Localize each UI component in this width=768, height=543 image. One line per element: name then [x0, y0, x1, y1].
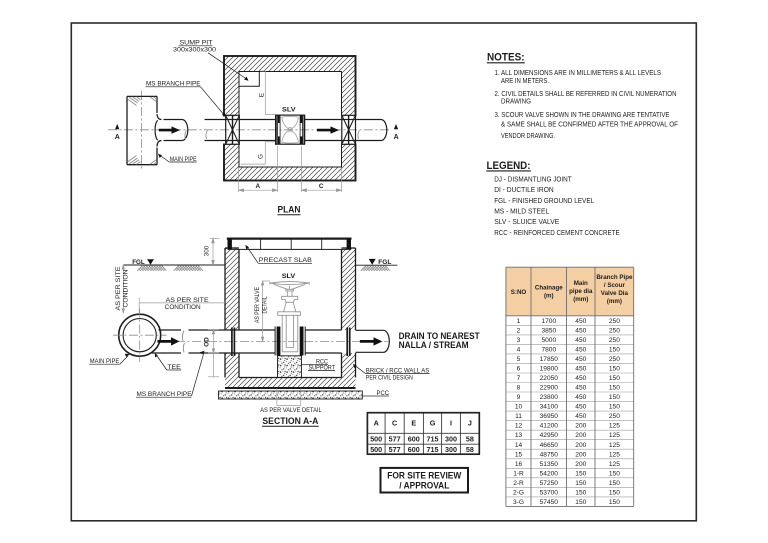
- svg-text:300: 300: [445, 445, 457, 454]
- section marker A left: [115, 124, 120, 141]
- svg-text:58: 58: [466, 435, 474, 444]
- main pipe (plan, vertical): [127, 96, 157, 164]
- svg-text:125: 125: [609, 423, 620, 430]
- chamber outer wall (plan): [224, 56, 356, 181]
- svg-text:200: 200: [575, 423, 586, 430]
- svg-text:150: 150: [575, 499, 586, 506]
- valve hourglass internals: [282, 117, 299, 143]
- svg-text:150: 150: [609, 375, 620, 382]
- floor outline (section): [225, 378, 356, 389]
- svg-text:SLV - SLUICE VALVE: SLV - SLUICE VALVE: [494, 219, 559, 226]
- right wall hatch (section): [342, 248, 356, 330]
- svg-text:13: 13: [515, 432, 523, 439]
- svg-text:FGL - FINISHED GROUND LEVEL: FGL - FINISHED GROUND LEVEL: [494, 198, 594, 205]
- valve body channel: [282, 315, 298, 352]
- PCC strip: [219, 391, 363, 399]
- wall crossing flange ticks left (section): [231, 328, 233, 357]
- svg-text:I: I: [450, 419, 452, 428]
- svg-text:34100: 34100: [540, 404, 559, 411]
- label PCC with leader: [363, 390, 390, 397]
- label TEE with leader: [155, 353, 182, 371]
- svg-text:S:NO: S:NO: [511, 289, 527, 296]
- svg-text:3: 3: [517, 337, 521, 344]
- svg-text:10: 10: [515, 404, 523, 411]
- dimension AS PER VALVE DETAIL (valve height): [261, 281, 270, 341]
- svg-text:7: 7: [517, 375, 521, 382]
- svg-text:150: 150: [609, 480, 620, 487]
- svg-text:577: 577: [389, 445, 401, 454]
- svg-text:600: 600: [408, 435, 420, 444]
- svg-text:125: 125: [609, 461, 620, 468]
- svg-text:15: 15: [515, 451, 523, 458]
- svg-text:(mm): (mm): [573, 296, 588, 303]
- svg-text:36950: 36950: [540, 413, 559, 420]
- svg-text:SLV: SLV: [282, 106, 296, 113]
- svg-text:SLV: SLV: [282, 273, 296, 280]
- svg-text:A: A: [374, 419, 379, 428]
- flow arrow (section left): [158, 337, 180, 345]
- pipe right stub to drain (section): [356, 330, 390, 352]
- valve neck taper: [284, 302, 296, 312]
- svg-text:715: 715: [427, 445, 439, 454]
- svg-text:450: 450: [575, 347, 586, 354]
- main pipe end break hatches: [128, 97, 157, 165]
- svg-text:CONDITION: CONDITION: [122, 269, 129, 307]
- svg-text:300: 300: [204, 245, 211, 256]
- svg-text:(m): (m): [544, 292, 554, 299]
- svg-text:250: 250: [609, 337, 620, 344]
- svg-text:Chainage: Chainage: [535, 284, 563, 291]
- pipe break marks (section): [182, 331, 184, 353]
- svg-text:1: 1: [517, 318, 521, 325]
- svg-text:450: 450: [575, 366, 586, 373]
- svg-text:450: 450: [575, 318, 586, 325]
- dimension G (valve to inner wall): [241, 142, 276, 164]
- svg-text:2-G: 2-G: [513, 489, 524, 496]
- left wall hatch (section): [225, 248, 239, 330]
- dimension 300 (chamber above ground): [210, 238, 220, 265]
- svg-text:AS PER SITE: AS PER SITE: [115, 267, 122, 311]
- svg-text:450: 450: [575, 356, 586, 363]
- label BRICK / RCC WALL AS PER CIVIL DESIGN with leader: [353, 364, 430, 382]
- svg-text:19800: 19800: [540, 366, 559, 373]
- svg-text:150: 150: [609, 470, 620, 477]
- svg-text:300x300x300: 300x300x300: [173, 47, 216, 54]
- data table header text: [511, 274, 633, 305]
- FOR SITE REVIEW / APPROVAL stamp box: [381, 468, 469, 493]
- svg-text:41200: 41200: [540, 423, 559, 430]
- svg-text:150: 150: [609, 404, 620, 411]
- svg-text:42950: 42950: [540, 432, 559, 439]
- svg-text:150: 150: [609, 394, 620, 401]
- dimension A below chamber: [239, 146, 278, 192]
- svg-text:57450: 57450: [540, 499, 559, 506]
- svg-text:NOTES:: NOTES:: [487, 52, 525, 64]
- svg-text:125: 125: [609, 432, 620, 439]
- svg-text:46650: 46650: [540, 442, 559, 449]
- svg-text:CONDITION: CONDITION: [165, 304, 201, 311]
- pipe opening masks in walls (plan): [223, 117, 241, 144]
- svg-text:150: 150: [575, 489, 586, 496]
- valve bonnet flange: [278, 312, 301, 316]
- svg-text:600: 600: [408, 445, 420, 454]
- svg-text:PER CIVIL DESIGN: PER CIVIL DESIGN: [366, 375, 413, 382]
- data table header background: [506, 267, 634, 316]
- svg-text:3-G: 3-G: [513, 499, 524, 506]
- dismantling joint DJ left (plan): [226, 115, 240, 144]
- valve flanges on pipe (section): [275, 327, 305, 356]
- svg-text:C: C: [392, 419, 397, 428]
- RCC support block: [278, 356, 302, 378]
- svg-text:AS PER VALVE DETAIL: AS PER VALVE DETAIL: [260, 407, 322, 414]
- leader AS PER SITE CONDITION (horizontal): [139, 297, 225, 313]
- dimension E (sump pit to valve): [260, 71, 275, 115]
- svg-text:150: 150: [609, 366, 620, 373]
- valve yoke: [282, 296, 298, 302]
- svg-text:200: 200: [575, 461, 586, 468]
- sluice valve SLV (plan): [276, 106, 305, 144]
- svg-text:E: E: [411, 419, 416, 428]
- svg-text:300: 300: [445, 435, 457, 444]
- svg-text:150: 150: [609, 499, 620, 506]
- plan centerline horizontal: [108, 129, 391, 131]
- svg-text:SECTION A-A: SECTION A-A: [262, 416, 318, 427]
- chamber inner wall (plan): [239, 72, 342, 168]
- pipe break marks (plan): [185, 131, 208, 140]
- svg-text:Branch Pipe: Branch Pipe: [596, 274, 633, 281]
- svg-text:150: 150: [609, 385, 620, 392]
- label SUMP PIT with leader: [173, 40, 249, 81]
- flow arrow (plan left): [159, 126, 180, 133]
- dismantling joint DJ right (plan): [342, 115, 356, 144]
- dimension OD (pipe): [208, 330, 219, 377]
- svg-text:DETAIL: DETAIL: [262, 296, 269, 313]
- svg-text:1-R: 1-R: [513, 470, 524, 477]
- svg-text:/ Scour: / Scour: [604, 282, 626, 289]
- svg-text:LEGEND:: LEGEND:: [487, 160, 531, 172]
- svg-text:250: 250: [609, 356, 620, 363]
- svg-text:5000: 5000: [541, 337, 556, 344]
- section pipe centerline: [160, 340, 388, 342]
- branch pipe to wall (section): [189, 330, 276, 353]
- svg-text:16: 16: [515, 461, 523, 468]
- svg-text:450: 450: [575, 327, 586, 334]
- svg-text:AS PER VALVE: AS PER VALVE: [254, 287, 261, 323]
- svg-text:(mm): (mm): [607, 298, 622, 305]
- svg-text:A: A: [394, 134, 399, 141]
- svg-text:4: 4: [517, 347, 521, 354]
- label MS BRANCH PIPE (section) with leader: [136, 351, 205, 399]
- svg-text:NALLA / STREAM: NALLA / STREAM: [399, 340, 469, 350]
- svg-text:200: 200: [575, 442, 586, 449]
- svg-text:450: 450: [575, 385, 586, 392]
- FGL marker right (section): [356, 259, 398, 271]
- svg-text:53700: 53700: [540, 489, 559, 496]
- svg-text:G: G: [430, 419, 436, 428]
- svg-text:200: 200: [575, 432, 586, 439]
- flow arrow (section right): [360, 337, 383, 345]
- svg-text:9: 9: [517, 394, 521, 401]
- wall crossing flange ticks right (section): [346, 328, 348, 357]
- svg-text:VENDOR DRAWING.: VENDOR DRAWING.: [501, 133, 555, 140]
- svg-text:DRAWING: DRAWING: [501, 99, 531, 106]
- precast slab: [227, 239, 352, 250]
- svg-text:J: J: [468, 419, 472, 428]
- svg-text:250: 250: [609, 318, 620, 325]
- branch pipe stub (plan): [164, 120, 188, 141]
- svg-text:12: 12: [515, 423, 523, 430]
- svg-text:14: 14: [515, 442, 523, 449]
- svg-text:RCC - REINFORCED CEMENT CONCRE: RCC - REINFORCED CEMENT CONCRETE: [494, 230, 620, 237]
- svg-text:22050: 22050: [540, 375, 559, 382]
- svg-text:1. ALL DIMENSIONS ARE IN MILLI: 1. ALL DIMENSIONS ARE IN MILLIMETERS & A…: [495, 70, 662, 77]
- svg-text:23800: 23800: [540, 394, 559, 401]
- svg-text:450: 450: [575, 337, 586, 344]
- svg-text:22900: 22900: [540, 385, 559, 392]
- svg-text:48750: 48750: [540, 451, 559, 458]
- circle crosshairs: [113, 334, 167, 336]
- pipe right of chamber (plan): [356, 120, 387, 141]
- sump pit: [239, 72, 259, 86]
- svg-text:150: 150: [609, 489, 620, 496]
- svg-text:DJ - DISMANTLING JOINT: DJ - DISMANTLING JOINT: [494, 177, 572, 184]
- svg-text:17850: 17850: [540, 356, 559, 363]
- pipe break mark right (plan): [358, 131, 360, 140]
- svg-text:5: 5: [517, 356, 521, 363]
- svg-text:125: 125: [609, 451, 620, 458]
- svg-text:C: C: [319, 183, 324, 190]
- svg-text:54200: 54200: [540, 470, 559, 477]
- svg-text:E: E: [258, 93, 265, 97]
- svg-text:450: 450: [575, 413, 586, 420]
- dimension C below chamber: [302, 146, 342, 192]
- svg-text:57250: 57250: [540, 480, 559, 487]
- svg-text:3850: 3850: [541, 327, 556, 334]
- label PRECAST SLAB with leader: [245, 245, 312, 265]
- svg-text:A: A: [115, 134, 120, 141]
- label RCC SUPPORT: [302, 359, 335, 372]
- sluice valve (section): handwheel: [270, 282, 309, 352]
- svg-text:6: 6: [517, 366, 521, 373]
- svg-text:200: 200: [575, 451, 586, 458]
- svg-text:450: 450: [575, 404, 586, 411]
- svg-text:450: 450: [575, 375, 586, 382]
- data table row lines: [506, 325, 634, 497]
- pipe valve to right wall (section): [305, 330, 341, 353]
- floor hatch (section): [225, 378, 356, 389]
- right wall outline (section): [342, 248, 356, 378]
- svg-text:1700: 1700: [541, 318, 556, 325]
- tee fillets joining branch (plan): [155, 114, 161, 147]
- svg-text:11: 11: [515, 413, 522, 420]
- svg-text:7800: 7800: [541, 347, 556, 354]
- main pipe circle (section): [119, 314, 161, 356]
- svg-text:MS - MILD STEEL: MS - MILD STEEL: [494, 209, 549, 216]
- svg-text:A: A: [255, 183, 260, 190]
- svg-text:& SAME SHALL BE CONFIRMED AFTE: & SAME SHALL BE CONFIRMED AFTER THE APPR…: [501, 122, 678, 129]
- left wall outline (section): [225, 248, 239, 378]
- svg-text:Valve Dia: Valve Dia: [601, 290, 629, 297]
- FGL marker left (section): [124, 259, 225, 271]
- dimension AS PER SITE CONDITION (left, rotated): [122, 265, 124, 313]
- svg-text:500: 500: [370, 445, 382, 454]
- svg-text:3. SCOUR VALVE SHOWN IN THE DR: 3. SCOUR VALVE SHOWN IN THE DRAWING ARE …: [495, 112, 670, 119]
- svg-text:450: 450: [575, 394, 586, 401]
- data table body text: [513, 318, 620, 506]
- svg-text:150: 150: [609, 347, 620, 354]
- svg-text:250: 250: [609, 413, 620, 420]
- branch pipe from tee (section): [152, 330, 181, 353]
- flow arrow (plan inside chamber): [317, 126, 339, 133]
- svg-text:250: 250: [609, 327, 620, 334]
- svg-text:ARE IN METERS.: ARE IN METERS.: [501, 78, 549, 85]
- data table column lines: [506, 267, 634, 506]
- branch pipe to chamber (plan): [205, 120, 356, 141]
- main pipe vertical centerline: [141, 91, 143, 170]
- svg-text:pipe dia: pipe dia: [569, 288, 593, 295]
- svg-text:125: 125: [609, 442, 620, 449]
- svg-text:577: 577: [389, 435, 401, 444]
- svg-text:2: 2: [517, 327, 521, 334]
- svg-text:150: 150: [575, 480, 586, 487]
- section marker A right: [394, 124, 399, 141]
- label MAIN PIPE (plan) with leader: [158, 154, 197, 163]
- label MAIN PIPE (section) with leader: [89, 354, 129, 366]
- svg-text:PLAN: PLAN: [278, 205, 301, 215]
- chamber wall hatch (plan): [224, 56, 356, 181]
- svg-text:150: 150: [575, 470, 586, 477]
- svg-text:58: 58: [466, 445, 474, 454]
- svg-text:8: 8: [517, 385, 521, 392]
- svg-text:G: G: [257, 154, 264, 159]
- label MS BRANCH PIPE (plan) with leader: [146, 81, 226, 117]
- svg-text:Main: Main: [574, 280, 588, 287]
- svg-text:500: 500: [370, 435, 382, 444]
- border frame: [71, 23, 696, 521]
- valve hub and stem: [286, 289, 294, 296]
- svg-text:715: 715: [427, 435, 439, 444]
- small dimension table A C E G I J: [367, 413, 479, 455]
- svg-text:OD: OD: [203, 337, 210, 347]
- pipe inside chamber (plan): [239, 120, 341, 141]
- svg-text:51350: 51350: [540, 461, 559, 468]
- svg-text:/ APPROVAL: / APPROVAL: [399, 481, 449, 492]
- dimension bracket below PCC (valve width): [277, 389, 301, 406]
- svg-text:DI - DUCTILE IRON: DI - DUCTILE IRON: [494, 187, 554, 194]
- svg-text:2-R: 2-R: [513, 480, 524, 487]
- svg-text:2. CIVIL DETAILS SHALL BE REFE: 2. CIVIL DETAILS SHALL BE REFERRED IN CI…: [495, 91, 677, 98]
